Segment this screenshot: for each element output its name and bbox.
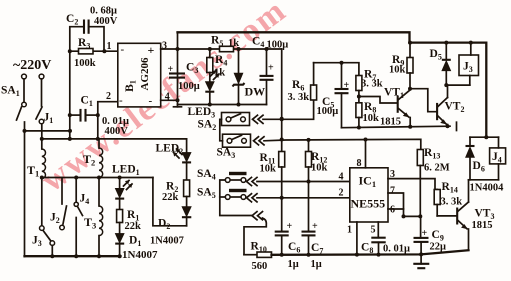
wire SA2 to R6 bbox=[263, 100, 314, 121]
wire SA4/SA5 left bracket bbox=[220, 180, 252, 216]
svg-text:+: + bbox=[268, 63, 274, 74]
svg-text:-: - bbox=[119, 95, 123, 107]
diode D6 bbox=[466, 137, 475, 180]
wire pin6/7 to R13 node bbox=[402, 214, 423, 218]
svg-text:22k: 22k bbox=[125, 221, 142, 232]
wire D6/J4 top link bbox=[470, 135, 499, 139]
svg-text:4: 4 bbox=[165, 92, 170, 103]
resistor R9 bbox=[407, 41, 413, 89]
transformer T2 bbox=[99, 139, 103, 178]
wire D6/J4 bottom link bbox=[469, 179, 499, 181]
watermark bbox=[35, 0, 294, 199]
wire secondary mid line bbox=[40, 176, 153, 180]
resistor R2 bbox=[184, 180, 190, 207]
svg-text:1μ: 1μ bbox=[311, 259, 322, 270]
resistor R6 bbox=[311, 63, 317, 100]
wire negative sub-rail bbox=[178, 103, 267, 107]
wire SA1 pole upper bbox=[23, 79, 25, 102]
wire rail D (left secondary top) bbox=[40, 137, 187, 141]
resistor R5 bbox=[220, 46, 234, 51]
svg-text:AG206: AG206 bbox=[139, 57, 151, 91]
svg-text:SA1: SA1 bbox=[1, 85, 20, 99]
svg-text:+: + bbox=[168, 64, 174, 75]
node AC input terminal L bbox=[22, 74, 27, 79]
svg-text:SA3: SA3 bbox=[217, 147, 236, 161]
wire rail A (emitter rail) bbox=[342, 122, 457, 130]
wire pin3 line bbox=[388, 179, 437, 190]
svg-text:+: + bbox=[422, 228, 428, 239]
svg-text:C1: C1 bbox=[81, 95, 93, 109]
wire B1 pin3 bbox=[161, 48, 178, 50]
relay J4 bbox=[490, 137, 506, 180]
wire common return hook to R10 bbox=[244, 218, 266, 255]
svg-text:8: 8 bbox=[357, 158, 362, 169]
wire main ground rail bbox=[272, 250, 469, 256]
wire left bottom rail bbox=[25, 254, 122, 258]
wire pin2 line bbox=[257, 197, 350, 199]
svg-text:LED3: LED3 bbox=[188, 106, 216, 120]
svg-text:J3: J3 bbox=[32, 235, 42, 249]
wire top rail bbox=[178, 32, 487, 137]
node AC input terminal N bbox=[39, 74, 44, 79]
capacitor C3 bbox=[169, 74, 185, 78]
svg-text:3. 3k: 3. 3k bbox=[288, 92, 310, 103]
svg-text:VT2: VT2 bbox=[445, 101, 465, 115]
svg-text:2: 2 bbox=[106, 91, 111, 102]
transformer T1 bbox=[42, 139, 46, 226]
resistor R13 bbox=[417, 150, 423, 217]
svg-text:1N4007: 1N4007 bbox=[122, 249, 158, 261]
svg-text:1k: 1k bbox=[228, 38, 239, 49]
capacitor C1 bbox=[70, 109, 98, 122]
relay J3 bbox=[446, 41, 478, 86]
diode D2 bbox=[182, 207, 191, 226]
IC U1 NE555 bbox=[350, 168, 388, 222]
wire pin1 stub bbox=[356, 222, 358, 255]
wire R14 to VT3 base bbox=[437, 215, 456, 217]
svg-text:100μ: 100μ bbox=[178, 81, 200, 92]
svg-text:J2: J2 bbox=[50, 212, 60, 226]
svg-text:D1: D1 bbox=[129, 235, 141, 249]
wire R6/C5/R7 top link bbox=[314, 61, 359, 76]
svg-text:3: 3 bbox=[390, 169, 395, 180]
svg-text:SA4: SA4 bbox=[197, 168, 216, 182]
svg-text:10k: 10k bbox=[389, 65, 406, 76]
svg-text:5: 5 bbox=[371, 225, 376, 236]
wire R13 node down to C9 bbox=[420, 216, 422, 238]
svg-text:-: - bbox=[149, 95, 153, 107]
switch J1 contact bbox=[36, 107, 44, 124]
svg-text:D2: D2 bbox=[158, 218, 170, 232]
svg-text:3. 3k: 3. 3k bbox=[361, 79, 383, 90]
wire SA1 pole lower bbox=[24, 122, 26, 257]
transistor VT2 bbox=[437, 85, 447, 126]
svg-text:100μ: 100μ bbox=[317, 106, 339, 117]
svg-text:1815: 1815 bbox=[380, 117, 401, 128]
svg-text:SA5: SA5 bbox=[197, 187, 216, 201]
switch J2 bbox=[60, 178, 67, 230]
connector chevron common bbox=[252, 212, 263, 220]
capacitor C6 bbox=[275, 232, 289, 257]
svg-text:+: + bbox=[148, 43, 155, 57]
svg-text:6: 6 bbox=[390, 205, 395, 216]
switch SA1 bbox=[17, 102, 27, 120]
svg-text:VT1: VT1 bbox=[384, 87, 404, 101]
svg-text:+: + bbox=[344, 80, 350, 91]
LED LED3 bbox=[205, 71, 219, 105]
svg-text:C7: C7 bbox=[311, 242, 323, 256]
svg-text:1N4007: 1N4007 bbox=[150, 236, 184, 247]
svg-text:J1: J1 bbox=[44, 112, 54, 126]
wire negative stub below pin4 bbox=[174, 100, 182, 107]
svg-text:SA2: SA2 bbox=[198, 119, 217, 133]
ground bbox=[413, 254, 429, 268]
wire pin4 line bbox=[257, 181, 350, 183]
svg-text:1μ: 1μ bbox=[288, 259, 299, 270]
wire pin3 vertical node bbox=[176, 32, 180, 102]
svg-text:22μ: 22μ bbox=[430, 242, 447, 253]
connector chevron SA2 bbox=[253, 115, 264, 123]
svg-text:R3: R3 bbox=[78, 37, 90, 51]
svg-text:100μ: 100μ bbox=[267, 40, 289, 51]
wire bus after R5 down bbox=[280, 49, 284, 152]
svg-text:10k: 10k bbox=[311, 163, 328, 174]
resistor R1 bbox=[117, 199, 123, 234]
resistor R12 bbox=[306, 140, 312, 232]
wire B1 pin4 bbox=[161, 99, 178, 101]
svg-text:R6: R6 bbox=[292, 79, 304, 93]
capacitor C2 bbox=[70, 20, 104, 52]
svg-text:D6: D6 bbox=[473, 160, 485, 174]
switch SA5 pushbutton bbox=[225, 189, 246, 200]
switch SA2 bbox=[222, 113, 250, 126]
switch SA4 pushbutton bbox=[225, 172, 246, 183]
wire LED2 branch corner bbox=[186, 139, 188, 153]
connector chevron SA4 bbox=[247, 177, 258, 185]
connector chevron SA5 bbox=[247, 194, 258, 202]
svg-text:400V: 400V bbox=[94, 16, 118, 27]
wire C1 junction to B1 pin2 bbox=[96, 102, 118, 117]
svg-text:10k: 10k bbox=[363, 113, 380, 124]
svg-text:-: - bbox=[121, 44, 125, 56]
transistor VT1 bbox=[398, 87, 412, 127]
svg-text:0. 68μ: 0. 68μ bbox=[90, 6, 117, 17]
wire rail B (SA3 to R13) bbox=[264, 138, 421, 150]
svg-text:1N4004: 1N4004 bbox=[470, 183, 505, 194]
resistor R14 bbox=[434, 190, 440, 216]
LED LED1 bbox=[115, 178, 132, 199]
svg-text:6. 2M: 6. 2M bbox=[424, 163, 450, 174]
svg-text:2: 2 bbox=[339, 188, 344, 199]
LED LED2 bbox=[174, 149, 192, 180]
svg-text:1815: 1815 bbox=[472, 220, 493, 231]
resistor R4 bbox=[207, 49, 213, 82]
wire J1 to rail D bbox=[41, 124, 43, 139]
svg-text:VT3: VT3 bbox=[475, 208, 495, 222]
svg-text:C2: C2 bbox=[66, 13, 78, 27]
wire VT3 collector up bbox=[468, 180, 470, 202]
wire R7/R8 node to VT1 base bbox=[357, 95, 397, 104]
zener diode DW bbox=[233, 49, 245, 105]
wire VT3 emitter down to rail bbox=[468, 229, 470, 250]
svg-text:7: 7 bbox=[390, 186, 395, 197]
capacitor C4 bbox=[260, 49, 274, 105]
wire bus left (C2/R3 down to rail D) bbox=[68, 51, 72, 141]
svg-text:1k: 1k bbox=[214, 68, 225, 79]
svg-text:+: + bbox=[312, 221, 318, 232]
wire J1 pole upper bbox=[41, 79, 43, 106]
svg-text:D5: D5 bbox=[430, 48, 442, 62]
svg-text:R13: R13 bbox=[424, 147, 440, 161]
svg-text:0. 01μ: 0. 01μ bbox=[383, 244, 410, 255]
wire pin6 stub bbox=[388, 208, 404, 210]
svg-text:100k: 100k bbox=[74, 58, 96, 69]
wire pin7 stub bbox=[388, 193, 404, 216]
transformer T3 bbox=[99, 178, 103, 257]
switch J4 bbox=[74, 178, 82, 257]
svg-text:~220V: ~220V bbox=[13, 58, 51, 73]
svg-text:T1: T1 bbox=[27, 163, 39, 179]
svg-text:+: + bbox=[287, 221, 293, 232]
svg-text:NE555: NE555 bbox=[351, 197, 386, 211]
svg-text:10k: 10k bbox=[260, 164, 277, 175]
capacitor C5 bbox=[335, 63, 349, 128]
wire pin3 rail with R5 bbox=[178, 47, 282, 51]
svg-text:3: 3 bbox=[162, 41, 167, 52]
svg-text:LED1: LED1 bbox=[112, 164, 140, 178]
svg-text:DW: DW bbox=[245, 85, 266, 99]
svg-text:C8: C8 bbox=[361, 242, 373, 256]
wire C1 junction down to rail D bbox=[96, 115, 100, 141]
wire VT1 collector to VT2 base bbox=[410, 89, 436, 112]
connector chevron SA3 bbox=[254, 137, 265, 145]
power module B1 AG206 bbox=[118, 43, 161, 107]
svg-text:R14: R14 bbox=[442, 181, 458, 195]
resistor R8 bbox=[356, 103, 362, 128]
svg-text:560: 560 bbox=[252, 261, 268, 272]
svg-text:3. 3k: 3. 3k bbox=[441, 197, 463, 208]
wire pin5 stub bbox=[377, 222, 379, 238]
svg-text:1: 1 bbox=[107, 41, 112, 52]
diode D1 bbox=[115, 233, 124, 256]
diode D5 bbox=[442, 41, 451, 88]
svg-text:T3: T3 bbox=[84, 215, 96, 231]
svg-text:J4: J4 bbox=[80, 193, 90, 207]
wire pin8 stub bbox=[365, 140, 367, 168]
resistor R7 bbox=[356, 76, 362, 103]
resistor R10 bbox=[244, 252, 272, 257]
svg-text:C6: C6 bbox=[288, 241, 300, 255]
svg-text:22k: 22k bbox=[162, 192, 179, 203]
svg-text:4: 4 bbox=[339, 172, 344, 183]
wire SA2-SA3 left bracket bbox=[220, 119, 223, 141]
svg-text:C9: C9 bbox=[432, 229, 444, 243]
resistor R11 bbox=[279, 152, 285, 232]
switch SA3 bbox=[223, 134, 251, 147]
capacitor C9 bbox=[414, 238, 429, 255]
wire rail C bbox=[23, 129, 73, 133]
svg-text:400V: 400V bbox=[105, 126, 129, 137]
switch J3 bbox=[40, 226, 55, 256]
svg-text:LED2: LED2 bbox=[156, 143, 184, 157]
wire D2 return loop bbox=[153, 178, 187, 226]
svg-text:1: 1 bbox=[347, 225, 352, 236]
resistor R3 bbox=[68, 49, 118, 54]
svg-text:R10: R10 bbox=[251, 241, 267, 255]
capacitor C8 bbox=[371, 238, 385, 255]
capacitor C7 bbox=[302, 232, 316, 257]
transistor VT3 bbox=[457, 202, 468, 229]
